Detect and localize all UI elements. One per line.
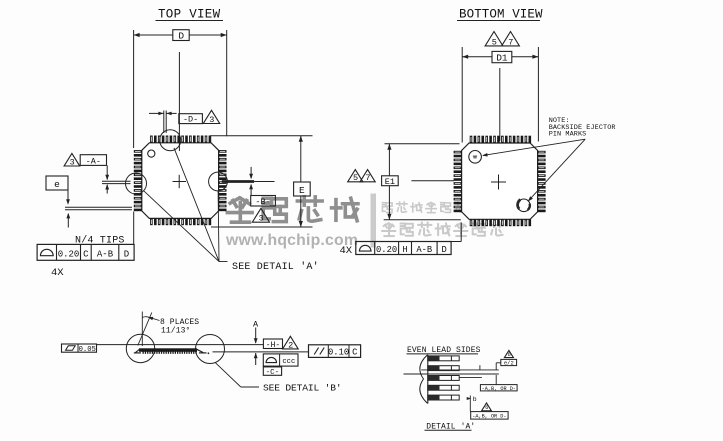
svg-text:7: 7	[508, 37, 513, 47]
svg-text:-D-: -D-	[183, 115, 198, 125]
svg-text:5: 5	[353, 173, 358, 183]
svg-text:PIN MARKS: PIN MARKS	[549, 131, 587, 139]
svg-text:SEE DETAIL 'B': SEE DETAIL 'B'	[263, 382, 342, 393]
svg-text:C: C	[83, 249, 89, 259]
svg-text:11/13°: 11/13°	[161, 327, 190, 336]
svg-text:0.10: 0.10	[328, 348, 349, 358]
svg-text:0.05: 0.05	[79, 346, 96, 354]
svg-text:e/2: e/2	[504, 360, 514, 367]
svg-text:E: E	[299, 185, 305, 196]
svg-text:C: C	[352, 348, 357, 358]
svg-text:7: 7	[365, 173, 370, 183]
svg-text:-A,B, OR D-: -A,B, OR D-	[472, 414, 506, 420]
svg-text:TOP VIEW: TOP VIEW	[158, 8, 221, 22]
svg-text:BOTTOM VIEW: BOTTOM VIEW	[459, 8, 543, 22]
svg-text:4X: 4X	[51, 267, 64, 279]
svg-text:-B-: -B-	[255, 197, 270, 207]
svg-text:6: 6	[485, 404, 488, 411]
svg-text:2: 2	[288, 340, 293, 350]
svg-text:0.20: 0.20	[376, 245, 397, 255]
svg-text:D1: D1	[496, 53, 508, 64]
svg-text:E1: E1	[385, 177, 395, 187]
svg-text:3: 3	[70, 157, 75, 167]
svg-text:6: 6	[508, 351, 511, 358]
svg-text:b: b	[473, 396, 477, 403]
svg-text:A-B: A-B	[97, 249, 114, 259]
svg-text:3: 3	[259, 214, 264, 224]
svg-text:www.hqchip.com: www.hqchip.com	[225, 232, 358, 249]
svg-text:D: D	[441, 245, 446, 255]
svg-text:H: H	[402, 245, 407, 255]
svg-text:ccc: ccc	[282, 358, 295, 366]
svg-text:-H-: -H-	[266, 341, 280, 350]
svg-text:e: e	[54, 179, 60, 190]
svg-text:D: D	[124, 249, 129, 259]
svg-text:0.20: 0.20	[58, 249, 80, 259]
svg-text:5: 5	[492, 37, 497, 47]
svg-text:SEE DETAIL 'A': SEE DETAIL 'A'	[232, 261, 319, 273]
svg-text:D: D	[178, 31, 184, 42]
svg-text:-C-: -C-	[266, 369, 280, 377]
svg-text:4X: 4X	[340, 245, 353, 257]
svg-text:-A-: -A-	[86, 156, 101, 166]
svg-text:-A,B, OR D-: -A,B, OR D-	[482, 386, 516, 392]
svg-text:A-B: A-B	[416, 245, 432, 255]
svg-text:3: 3	[209, 115, 214, 125]
